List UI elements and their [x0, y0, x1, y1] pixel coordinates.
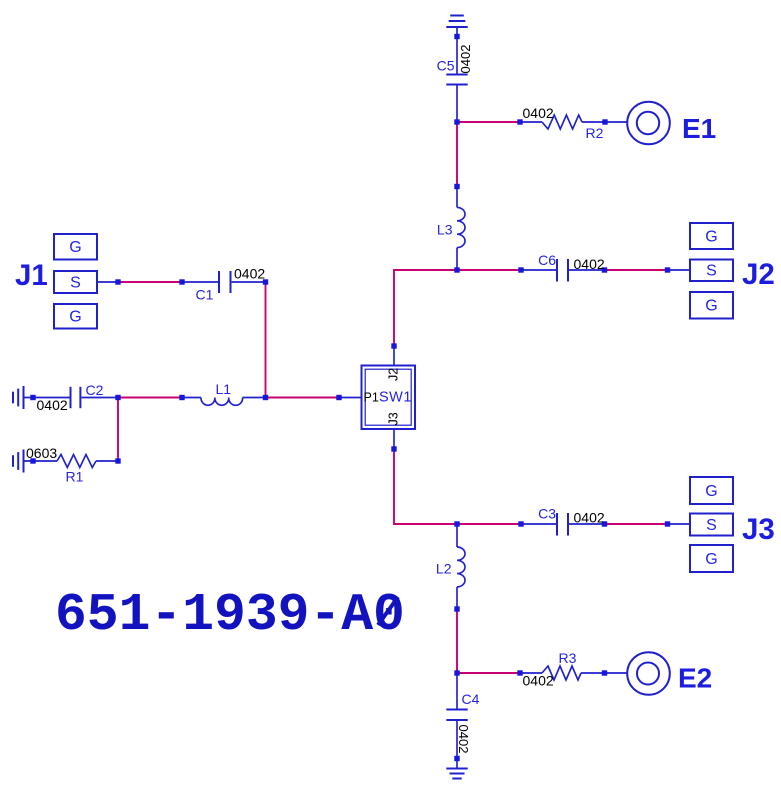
svg-text:R3: R3	[559, 650, 577, 666]
svg-text:J2: J2	[387, 368, 401, 381]
svg-text:R1: R1	[66, 469, 84, 485]
svg-text:L2: L2	[436, 561, 452, 577]
svg-text:C4: C4	[462, 691, 480, 707]
svg-text:S: S	[706, 517, 717, 534]
svg-text:G: G	[705, 483, 717, 500]
svg-text:0402: 0402	[574, 510, 605, 526]
svg-text:J3: J3	[387, 412, 401, 425]
svg-text:0402: 0402	[458, 45, 473, 74]
svg-text:0402: 0402	[456, 725, 471, 754]
svg-text:C6: C6	[538, 252, 556, 268]
svg-text:0402: 0402	[523, 673, 554, 689]
svg-text:S: S	[70, 274, 81, 291]
svg-text:651-1939-A0: 651-1939-A0	[55, 585, 405, 645]
svg-text:G: G	[69, 309, 81, 326]
svg-text:0402: 0402	[37, 397, 68, 413]
svg-text:C5: C5	[437, 58, 455, 74]
svg-text:J1: J1	[15, 259, 48, 292]
svg-text:L3: L3	[437, 222, 453, 238]
svg-text:E1: E1	[682, 113, 716, 144]
svg-text:0402: 0402	[574, 256, 605, 272]
svg-text:0402: 0402	[523, 105, 554, 121]
svg-text:L1: L1	[216, 381, 232, 397]
svg-text:S: S	[706, 263, 717, 280]
svg-text:C2: C2	[86, 382, 104, 398]
svg-text:R2: R2	[586, 125, 604, 141]
svg-text:SW1: SW1	[379, 390, 412, 406]
svg-text:G: G	[705, 228, 717, 245]
svg-text:C3: C3	[538, 506, 556, 522]
svg-text:G: G	[69, 239, 81, 256]
svg-text:J2: J2	[742, 258, 775, 291]
svg-text:G: G	[705, 551, 717, 568]
svg-text:P1: P1	[364, 391, 379, 405]
svg-text:0603: 0603	[26, 445, 57, 461]
svg-text:0402: 0402	[234, 266, 265, 282]
svg-text:C1: C1	[196, 287, 214, 303]
svg-text:G: G	[705, 298, 717, 315]
svg-text:E2: E2	[678, 663, 712, 694]
svg-text:J3: J3	[742, 513, 775, 546]
